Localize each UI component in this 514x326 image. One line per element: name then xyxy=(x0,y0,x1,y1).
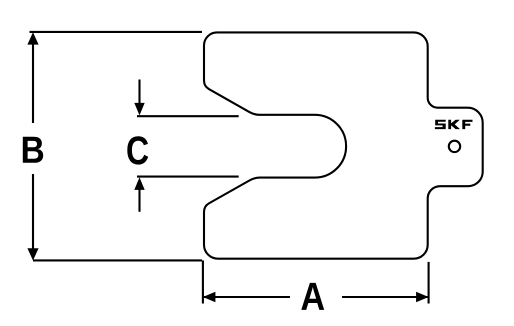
dimension A extension right xyxy=(428,262,430,304)
shim plate outline xyxy=(204,32,483,258)
label C xyxy=(127,136,148,164)
label B xyxy=(23,137,43,163)
hole xyxy=(449,141,460,152)
dimension C arrow line bottom xyxy=(138,188,140,212)
dimension A line right xyxy=(342,296,428,298)
dimension C extension bottom xyxy=(137,176,239,178)
dimension B line upper xyxy=(32,43,34,123)
arrow A left xyxy=(203,292,216,302)
label A xyxy=(301,283,324,310)
dimension C extension top xyxy=(137,115,239,117)
dimension B extension top xyxy=(30,31,203,33)
arrow A right xyxy=(416,292,429,302)
SKF logo text xyxy=(435,120,473,129)
dimension A line left xyxy=(204,296,290,298)
arrow C top xyxy=(134,103,144,116)
dimension B line lower xyxy=(32,174,34,249)
arrow B bottom xyxy=(27,248,38,260)
dimension A extension left xyxy=(202,260,204,303)
arrow C bottom xyxy=(134,177,144,190)
dimension B extension bottom xyxy=(33,259,202,261)
dimension C arrow line top xyxy=(138,80,140,107)
arrow B top xyxy=(27,32,38,44)
